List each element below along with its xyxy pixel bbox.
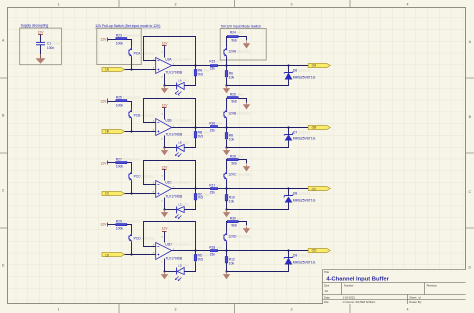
LED LD <box>175 264 189 281</box>
svg-text:12V: 12V <box>162 166 169 170</box>
svg-text:TLV170IDBVR: TLV170IDBVR <box>173 243 191 247</box>
ground (op-amp ch D) <box>164 272 166 275</box>
resistor RC 7k5 <box>194 189 210 200</box>
svg-text:12VA: 12VA <box>228 50 237 54</box>
svg-text:12VD: 12VD <box>228 235 237 239</box>
wire divider junction to mode transistor <box>226 58 228 66</box>
svg-text:C: C <box>2 188 5 192</box>
wire mode transistor to resistor <box>226 99 229 109</box>
svg-text:15k: 15k <box>210 253 216 257</box>
wire lower junction to zener <box>227 141 289 148</box>
transistor 12VD (mode switch) <box>224 232 252 243</box>
svg-text:3: 3 <box>291 307 293 311</box>
svg-text:R26: R26 <box>230 93 236 97</box>
svg-text:1D: 1D <box>105 254 110 258</box>
wire ground junction to LED <box>165 147 177 149</box>
resistor R8 10k <box>225 128 234 148</box>
wire pull-up resistor to transistor <box>127 102 132 109</box>
wire mode transistor to resistor <box>226 37 229 47</box>
svg-text:1C: 1C <box>105 192 110 196</box>
resistor R16 15k <box>209 122 222 133</box>
svg-text:DMG2301L: DMG2301L <box>141 237 156 241</box>
svg-text:SOD123: SOD123 <box>299 69 310 73</box>
wire op-amp pin 2 to ground <box>164 78 166 86</box>
svg-text:7k5: 7k5 <box>198 73 203 77</box>
power port 12V (op-amp ch A) <box>162 42 169 46</box>
ground (divider ch A) <box>226 86 228 89</box>
svg-text:DMG2301L: DMG2301L <box>237 50 252 54</box>
svg-text:12V: 12V <box>100 100 107 104</box>
svg-text:GRN: GRN <box>183 264 189 268</box>
resistor R12 10k <box>225 251 235 272</box>
transistor PCC (pull-up switch) <box>129 171 155 182</box>
ground (divider ch B) <box>226 148 228 151</box>
wire 12V to op-amp pin 5 <box>164 108 166 115</box>
node ground junction ch A <box>163 84 165 86</box>
node lower junction ch D <box>225 270 227 272</box>
svg-text:GRN: GRN <box>183 141 189 145</box>
svg-text:100k: 100k <box>116 42 124 46</box>
svg-text:10k: 10k <box>229 262 235 266</box>
wire input port to op-amp <box>125 69 151 71</box>
node input junction ch C <box>130 192 132 194</box>
wire op-amp pin 2 to ground <box>164 264 166 272</box>
wire divider junction to mode transistor <box>226 181 228 189</box>
svg-text:12V: 12V <box>162 227 169 231</box>
svg-text:100n: 100n <box>47 46 55 50</box>
svg-text:10k: 10k <box>229 138 235 142</box>
svg-text:2: 2 <box>175 2 177 6</box>
wire op-amp pin 2 to ground <box>164 140 166 148</box>
node zener junction ch C <box>287 187 289 189</box>
svg-text:SOD123: SOD123 <box>299 192 310 196</box>
wire LED to resistor <box>184 138 195 148</box>
transistor 12VA (mode switch) <box>224 47 252 58</box>
resistor RB 7k5 <box>194 128 210 139</box>
ground (mode switch ch B) <box>246 103 248 105</box>
wire divider junction to mode transistor <box>226 243 228 251</box>
port 1A <box>102 68 125 72</box>
resistor RA 7k5 <box>194 66 210 77</box>
svg-text:12V Pull-up Switch (Set input: 12V Pull-up Switch (Set input mode to 12… <box>95 24 160 28</box>
node output junction ch D <box>194 249 196 251</box>
svg-text:RC0402-100K: RC0402-100K <box>123 220 141 224</box>
group box: 5V/12V input mode switch <box>220 25 266 60</box>
wire resistor to ground arrow <box>238 160 246 164</box>
wire 12V to C1 <box>40 35 42 43</box>
svg-text:12VC: 12VC <box>228 173 237 177</box>
svg-text:1B: 1B <box>105 130 109 134</box>
wire resistor to ground arrow <box>238 99 246 103</box>
svg-text:MMSZ5V6T1G: MMSZ5V6T1G <box>293 76 316 80</box>
ground (mode switch ch A) <box>246 42 248 44</box>
wire lower junction to zener <box>227 265 289 272</box>
svg-text:100k: 100k <box>116 227 124 231</box>
wire input port to op-amp <box>125 254 151 256</box>
svg-text:R28: R28 <box>230 155 236 159</box>
node divider junction ch B <box>225 126 227 128</box>
op-amp U2B TLV170IDB <box>150 114 190 141</box>
svg-text:LD: LD <box>178 264 181 268</box>
svg-text:R25: R25 <box>116 96 122 100</box>
resistor R25 100k <box>116 96 141 108</box>
wire mid resistor to divider junction <box>218 250 227 252</box>
node input junction ch A <box>130 68 132 70</box>
wire mid resistor to divider junction <box>218 127 227 129</box>
wire 12V to pull-up resistor <box>108 101 116 103</box>
node divider junction ch D <box>225 249 227 251</box>
wire feedback loop <box>144 161 196 189</box>
capacitor C1 100n <box>36 42 63 50</box>
resistor R6 10k <box>225 66 234 86</box>
svg-text:15k: 15k <box>210 129 216 133</box>
power port 12V (op-amp ch B) <box>162 104 169 108</box>
port OB <box>308 126 330 130</box>
zone column numbers (bottom) <box>58 307 409 311</box>
wire input port to op-amp <box>125 131 151 133</box>
port 1C <box>102 192 125 196</box>
svg-text:7k5: 7k5 <box>198 258 203 262</box>
ground (decoupling) <box>36 58 46 63</box>
svg-text:LB: LB <box>178 141 181 145</box>
svg-text:TLV170IDBVR: TLV170IDBVR <box>173 181 191 185</box>
svg-text:D7: D7 <box>293 131 297 135</box>
svg-text:U2A: U2A <box>165 58 172 62</box>
svg-text:3: 3 <box>291 2 293 6</box>
wire lower junction to zener <box>227 203 289 210</box>
port OA <box>308 64 330 68</box>
svg-text:4: 4 <box>407 307 409 311</box>
svg-text:1: 1 <box>58 2 60 6</box>
svg-text:10k: 10k <box>229 200 235 204</box>
svg-text:4-Channel Input Buffer: 4-Channel Input Buffer <box>326 276 389 282</box>
svg-text:DMG2301L: DMG2301L <box>141 175 156 179</box>
svg-text:DMG2301L: DMG2301L <box>141 52 156 56</box>
node output junction ch B <box>194 126 196 128</box>
wire divider junction to mode transistor <box>226 120 228 128</box>
resistor R30 5k6 <box>227 217 243 228</box>
svg-text:DMG2301L: DMG2301L <box>141 114 156 118</box>
svg-text:12V: 12V <box>162 104 169 108</box>
port 1D <box>102 253 125 258</box>
resistor R15 15k <box>209 60 222 71</box>
node input junction ch B <box>130 130 132 132</box>
svg-text:0402: 0402 <box>216 122 223 126</box>
svg-text:R29: R29 <box>116 220 122 224</box>
wire 12V to op-amp pin 5 <box>164 46 166 53</box>
wire op-amp output <box>177 65 211 67</box>
zone column numbers (top) <box>58 2 409 6</box>
svg-text:TLV170IDB: TLV170IDB <box>165 133 183 137</box>
wire mid resistor to divider junction <box>218 188 227 190</box>
svg-text:R23: R23 <box>116 34 122 38</box>
wire pull-up resistor to transistor <box>127 225 132 233</box>
svg-text:SOD123: SOD123 <box>299 131 310 135</box>
transistor PCA (pull-up switch) <box>129 47 155 58</box>
wire transistor to input line <box>131 182 133 194</box>
svg-text:R18: R18 <box>209 246 215 250</box>
resistor R27 100k <box>116 158 141 169</box>
ground (op-amp ch C) <box>164 210 166 213</box>
svg-text:R27: R27 <box>116 158 122 162</box>
port OD <box>308 249 330 253</box>
svg-text:Drawn By:: Drawn By: <box>409 300 422 304</box>
svg-text:Number: Number <box>344 283 354 287</box>
wire zener to output line <box>288 128 290 135</box>
ground (mode switch ch D) <box>246 227 248 229</box>
wire input port to op-amp <box>125 193 151 195</box>
svg-text:RC0402-100K: RC0402-100K <box>123 158 141 162</box>
svg-text:R17: R17 <box>209 184 215 188</box>
zener diode D6 MMSZ5V6T1G <box>284 69 316 80</box>
svg-text:TLV170IDBVR: TLV170IDBVR <box>173 58 191 62</box>
svg-text:LC: LC <box>178 203 181 207</box>
LED LB <box>175 141 189 157</box>
svg-text:R24: R24 <box>230 31 236 35</box>
node zener junction ch A <box>287 64 289 66</box>
node lower junction ch B <box>225 146 227 148</box>
transistor 12VC (mode switch) <box>224 171 252 181</box>
node ground junction ch B <box>163 146 165 148</box>
svg-text:TLV170IDBVR: TLV170IDBVR <box>173 119 191 123</box>
svg-text:TLV170IDB: TLV170IDB <box>165 257 183 261</box>
svg-text:Revision: Revision <box>427 283 438 287</box>
wire feedback loop <box>144 99 196 128</box>
zener diode D7 MMSZ5V6T1G <box>284 131 316 141</box>
svg-text:RC0402-100K: RC0402-100K <box>123 96 141 100</box>
svg-text:0402: 0402 <box>216 246 223 250</box>
wire LED to resistor <box>184 262 195 272</box>
wire mode transistor to resistor <box>226 160 229 171</box>
svg-text:U2C: U2C <box>165 181 172 185</box>
svg-text:Sheet of: Sheet of <box>409 295 421 299</box>
svg-text:10k: 10k <box>229 76 235 80</box>
wire LED to resistor <box>184 76 195 86</box>
node output junction ch A <box>194 64 196 66</box>
svg-text:1-18-2022: 1-18-2022 <box>343 295 356 299</box>
svg-text:U2B: U2B <box>165 119 172 123</box>
zener diode D9 MMSZ5V6T1G <box>284 254 316 265</box>
power port 12V (pull-up ch D) <box>100 223 107 227</box>
wire transistor to input line <box>131 58 133 70</box>
svg-text:100k: 100k <box>116 104 124 108</box>
svg-text:C:\Users\..\FILTER.SchDoc: C:\Users\..\FILTER.SchDoc <box>343 300 376 304</box>
ground (op-amp ch B) <box>164 148 166 151</box>
wire op-amp output <box>177 127 211 129</box>
wire 12V to op-amp pin 5 <box>164 170 166 177</box>
svg-text:12V: 12V <box>100 38 107 42</box>
wire output line to port <box>227 65 309 67</box>
wire resistor to ground arrow <box>238 222 246 226</box>
wire op-amp pin 2 to ground <box>164 202 166 210</box>
svg-text:OC: OC <box>312 188 317 192</box>
node input junction ch D <box>130 253 132 255</box>
svg-text:5k6: 5k6 <box>231 162 236 166</box>
svg-text:A4: A4 <box>325 289 329 293</box>
svg-text:TLV170IDB: TLV170IDB <box>165 195 183 199</box>
svg-text:DMG2301L: DMG2301L <box>237 112 252 116</box>
node ground junction ch D <box>163 270 165 272</box>
svg-text:R16: R16 <box>209 122 215 126</box>
svg-text:LA: LA <box>178 79 181 83</box>
svg-text:MMSZ5V6T1G: MMSZ5V6T1G <box>293 199 316 203</box>
svg-text:C: C <box>468 190 471 194</box>
svg-text:12VB: 12VB <box>228 112 237 116</box>
svg-text:D8: D8 <box>293 192 297 196</box>
svg-text:OD: OD <box>312 249 317 253</box>
LED LC <box>175 203 189 219</box>
node divider junction ch C <box>225 187 227 189</box>
zone row letters (right) <box>468 40 471 269</box>
transistor PCB (pull-up switch) <box>129 109 155 120</box>
wire pull-up resistor to transistor <box>127 163 132 171</box>
wire 12V to pull-up resistor <box>108 224 116 226</box>
wire zener to output line <box>288 66 290 73</box>
zone row letters (left) <box>2 38 5 267</box>
svg-text:15k: 15k <box>210 67 216 71</box>
svg-text:GRN: GRN <box>183 79 189 83</box>
wire op-amp output <box>177 250 211 252</box>
resistor R18 15k <box>209 246 222 257</box>
power port 12V (decoupling) <box>38 30 45 34</box>
power port 12V (pull-up ch C) <box>100 161 107 166</box>
svg-text:100k: 100k <box>116 165 124 169</box>
svg-text:GRN: GRN <box>183 203 189 207</box>
node divider junction ch A <box>225 64 227 66</box>
transistor 12VB (mode switch) <box>224 109 252 120</box>
port 1B <box>102 130 125 134</box>
svg-text:12V: 12V <box>100 162 107 166</box>
wire ground junction to LED <box>165 85 177 87</box>
svg-text:Date:: Date: <box>324 295 331 299</box>
svg-text:OB: OB <box>312 126 317 130</box>
svg-text:0402: 0402 <box>237 93 244 97</box>
group box: 12V pull-up switch <box>95 24 160 65</box>
wire lower junction to zener <box>227 80 289 86</box>
ground (mode switch ch C) <box>246 165 248 167</box>
wire zener to output line <box>288 189 290 196</box>
svg-text:5V/12V Input Mode Switch: 5V/12V Input Mode Switch <box>221 25 261 29</box>
node zener junction ch D <box>287 249 289 251</box>
svg-text:TLV170IDB: TLV170IDB <box>165 71 183 75</box>
ground (op-amp ch A) <box>164 86 166 89</box>
power port 12V (op-amp ch C) <box>162 166 169 170</box>
resistor R10 10k <box>225 189 235 210</box>
port OC <box>308 187 330 192</box>
title block <box>323 270 466 304</box>
ground (divider ch C) <box>226 210 228 213</box>
resistor R26 5k6 <box>227 93 243 104</box>
wire output line to port <box>227 250 309 252</box>
node ground junction ch C <box>163 208 165 210</box>
wire op-amp output <box>177 188 211 190</box>
svg-text:MMSZ5V6T1G: MMSZ5V6T1G <box>293 261 316 265</box>
svg-text:0402: 0402 <box>237 31 244 35</box>
resistor R23 100k <box>116 34 141 46</box>
svg-text:0402: 0402 <box>216 60 223 64</box>
zener diode D8 MMSZ5V6T1G <box>284 192 316 203</box>
svg-text:SOD123: SOD123 <box>299 254 310 258</box>
wire ground junction to LED <box>165 209 177 211</box>
svg-text:0402: 0402 <box>237 155 244 159</box>
wire ground junction to LED <box>165 271 177 273</box>
power port 12V (op-amp ch D) <box>162 227 169 232</box>
node zener junction ch B <box>287 126 289 128</box>
wire 12V to pull-up resistor <box>108 39 116 41</box>
svg-text:0402: 0402 <box>216 184 223 188</box>
svg-text:U2D: U2D <box>165 243 172 247</box>
svg-text:D9: D9 <box>293 254 297 258</box>
svg-text:DMG2301L: DMG2301L <box>237 235 252 239</box>
wire mid resistor to divider junction <box>218 65 227 67</box>
resistor R29 100k <box>116 220 141 231</box>
svg-text:R30: R30 <box>230 217 236 221</box>
svg-text:D6: D6 <box>293 69 297 73</box>
wire feedback loop <box>144 37 196 66</box>
wire output line to port <box>227 188 309 190</box>
transistor PCD (pull-up switch) <box>129 233 155 243</box>
svg-text:D: D <box>468 265 471 269</box>
wire output line to port <box>227 127 309 129</box>
ground (divider ch D) <box>226 272 228 275</box>
wire mode transistor to resistor <box>226 222 229 232</box>
wire feedback loop <box>144 222 196 251</box>
wire transistor to input line <box>131 243 133 255</box>
svg-text:1: 1 <box>58 307 60 311</box>
svg-text:Supply decoupling: Supply decoupling <box>21 24 49 28</box>
svg-text:0402: 0402 <box>237 217 244 221</box>
svg-text:4: 4 <box>407 2 409 6</box>
wire 12V to op-amp pin 5 <box>164 232 166 238</box>
wire resistor to ground arrow <box>238 37 246 41</box>
svg-text:R15: R15 <box>209 60 215 64</box>
LED LA <box>175 79 189 96</box>
op-amp U2C TLV170IDB <box>150 176 190 203</box>
svg-text:7k5: 7k5 <box>198 135 203 139</box>
svg-text:5k6: 5k6 <box>231 39 236 43</box>
wire transistor to input line <box>131 120 133 132</box>
svg-text:12V: 12V <box>38 30 45 34</box>
svg-text:5k6: 5k6 <box>231 100 236 104</box>
svg-text:DMG2301L: DMG2301L <box>237 173 252 177</box>
resistor R28 5k6 <box>227 155 243 166</box>
supply decoupling group box <box>20 24 62 65</box>
wire LED to resistor <box>184 200 195 210</box>
svg-text:5k6: 5k6 <box>231 224 236 228</box>
power port 12V (pull-up ch A) <box>100 38 107 42</box>
wire C1 to ground <box>40 45 42 58</box>
svg-text:12V: 12V <box>162 42 169 46</box>
resistor RD 7k5 <box>194 251 210 262</box>
svg-text:MMSZ5V6T1G: MMSZ5V6T1G <box>293 137 316 141</box>
svg-text:File:: File: <box>324 300 329 304</box>
resistor R17 15k <box>209 184 222 195</box>
svg-text:7k5: 7k5 <box>198 196 203 200</box>
node lower junction ch A <box>225 84 227 86</box>
op-amp U2A TLV170IDB <box>150 52 190 79</box>
svg-text:D: D <box>2 263 5 267</box>
resistor R24 5k6 <box>227 31 243 43</box>
svg-text:12V: 12V <box>100 223 107 227</box>
node output junction ch C <box>194 187 196 189</box>
svg-text:2: 2 <box>175 307 177 311</box>
svg-text:RC0402-100K: RC0402-100K <box>123 34 141 38</box>
svg-text:Title: Title <box>324 270 329 274</box>
node lower junction ch C <box>225 208 227 210</box>
wire zener to output line <box>288 251 290 258</box>
svg-text:Size: Size <box>324 283 330 287</box>
power port 12V (pull-up ch B) <box>100 99 107 104</box>
